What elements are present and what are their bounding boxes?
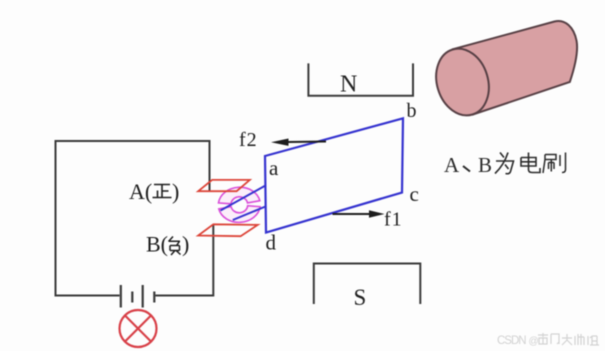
commutator [218,186,261,223]
coil abcd [265,118,403,232]
svg-text:B(: B( [146,232,168,257]
watermark CSDN [497,333,599,347]
svg-text:A: A [444,153,460,177]
svg-text:a: a [269,156,279,180]
watermark CJK [538,333,599,345]
svg-text:@: @ [529,336,539,347]
svg-text:f1: f1 [384,209,403,231]
force arrow f2 [271,139,326,146]
glyph shua [543,153,566,174]
lamp [120,310,157,347]
wire coil lead d [233,207,266,221]
magnet N pole [308,63,413,95]
svg-text:): ) [172,179,179,204]
svg-text:N: N [340,72,357,98]
svg-text:CSDN: CSDN [497,335,526,347]
svg-text:S: S [354,285,367,310]
glyph dian [521,153,540,173]
wire bottom right segment [155,225,213,296]
svg-text:d: d [266,231,277,255]
cylinder brush model [428,21,577,122]
wire coil lead a [221,186,266,211]
battery [121,285,155,308]
svg-text:): ) [182,232,189,257]
label A B are brushes [444,153,566,178]
svg-text:B: B [478,153,492,177]
svg-text:b: b [407,100,417,122]
force arrow f1 [333,210,385,218]
wire circuit loop [56,141,210,296]
label A(positive) [129,179,179,204]
svg-text:c: c [410,182,419,206]
svg-text:A(: A( [129,179,152,204]
brush A [198,180,250,191]
svg-text:f2: f2 [239,129,258,151]
label B(negative) [146,232,189,257]
glyph wei [495,153,514,174]
brush B [198,224,258,236]
magnet S pole [314,264,421,305]
